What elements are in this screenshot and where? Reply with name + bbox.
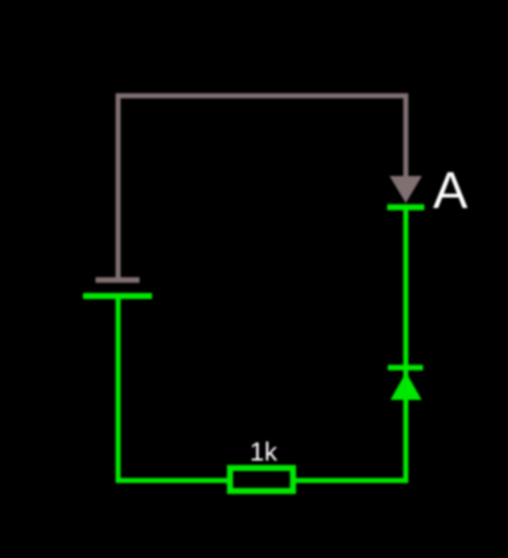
diode D1 cathode bar / node A bar (green) [387, 204, 424, 210]
resistor R1 1k body [230, 468, 293, 491]
battery V1 bottom plate (green) [83, 293, 152, 299]
svg-text:1k: 1k [250, 437, 278, 467]
diode D2 cathode bar (green) [388, 365, 423, 371]
diode D1 arrowhead (gray, pointing down) [390, 176, 422, 203]
wire: green from resistor along bottom and up right side to node A [295, 207, 406, 480]
battery V1 top plate (gray) [96, 277, 140, 283]
diode D2 triangle (green, pointing up) [390, 372, 421, 400]
wire: gray top loop from battery + terminal to diode anode [118, 96, 406, 280]
wire: green from battery down left side and along bottom to resistor [118, 296, 228, 481]
svg-text:A: A [433, 162, 468, 220]
